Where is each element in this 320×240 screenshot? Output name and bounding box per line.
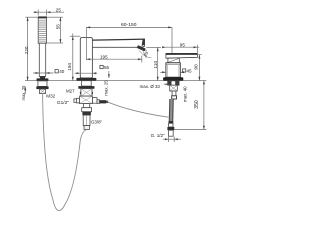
holder top plate [37, 78, 49, 81]
dimension square40 (holder escutcheon) [33, 69, 65, 74]
aerator [137, 45, 146, 51]
svg-text:max. 40: max. 40 [183, 86, 188, 102]
dimension 110 (spout height) [146, 47, 161, 80]
dimension 195 (spout reach) [86, 54, 141, 62]
svg-text:M27: M27 [66, 88, 75, 93]
svg-text:M32: M32 [46, 94, 55, 99]
mixer shank [170, 85, 178, 91]
diverter right washer [97, 100, 100, 104]
holder shank M32 [40, 89, 46, 94]
holder locknut [36, 86, 48, 89]
svg-text:350: 350 [194, 100, 200, 109]
dimension 194 (riser height) [67, 33, 80, 80]
diverter right nipple [100, 100, 109, 103]
holder neck [38, 81, 47, 87]
svg-text:60-150: 60-150 [121, 22, 137, 28]
svg-text:110: 110 [153, 61, 159, 69]
svg-text:max. Ø 33: max. Ø 33 [140, 84, 161, 89]
hose from diverter to supply fitting [108, 102, 168, 117]
spout riser column [80, 38, 92, 78]
label max diameter 33 [140, 83, 169, 88]
diverter right port hex [93, 98, 98, 104]
hand shower shaft [39, 43, 45, 76]
angle arc 25deg [139, 50, 151, 57]
dimension 350 (hose length) [174, 81, 206, 130]
dimension max.25 left (deck thickness) [21, 85, 26, 101]
svg-text:25: 25 [56, 7, 62, 12]
dimension 25 (head width) [33, 7, 64, 15]
riser shank M27 [80, 89, 93, 96]
svg-text:194: 194 [67, 63, 72, 71]
svg-text:195: 195 [100, 54, 108, 59]
svg-text:90: 90 [194, 64, 200, 70]
spout arm [92, 39, 144, 47]
svg-text:45: 45 [187, 69, 193, 74]
mixer lever [166, 53, 198, 62]
svg-text:220: 220 [24, 46, 29, 54]
mixer body [166, 63, 180, 77]
hand shower head [38, 17, 46, 43]
dimension square45 (body width) [160, 69, 192, 74]
hand shower hose loop [43, 94, 86, 211]
svg-text:40: 40 [59, 69, 65, 74]
svg-text:max. 25: max. 25 [104, 80, 109, 96]
mixer supply hose [169, 99, 173, 121]
G3/8 dark collar [82, 112, 91, 115]
mixer fixing stud [172, 91, 177, 99]
svg-text:55: 55 [104, 65, 110, 70]
diverter left port [74, 98, 80, 103]
mixer flange [163, 77, 183, 81]
svg-text:G3/8": G3/8" [91, 120, 103, 125]
aerator axis extension [142, 49, 147, 58]
holder connector nub [40, 76, 45, 78]
svg-text:G1/2": G1/2" [57, 100, 69, 106]
hose end fitting G1/2 [167, 121, 174, 136]
svg-text:55: 55 [55, 24, 60, 30]
riser locknut [78, 86, 94, 89]
diverter body [80, 96, 93, 104]
svg-text:G. 1/2": G. 1/2" [151, 133, 166, 138]
svg-text:max. 25: max. 25 [21, 85, 26, 101]
svg-text:95: 95 [180, 42, 186, 47]
G3/8 threaded tube [83, 115, 90, 129]
mixer locknut [168, 81, 180, 85]
dimension 55 (head length) [47, 17, 63, 43]
riser neck [82, 81, 92, 86]
dimension 90 (lever height) [181, 55, 202, 81]
dimension max.25 right [104, 71, 110, 96]
dimension 60-150 (axis distance) [86, 22, 172, 60]
riser flange [76, 78, 96, 81]
dimension square55 (riser base) [75, 65, 110, 74]
G3/8 hex [82, 108, 92, 112]
diverter lower neck [84, 104, 90, 108]
dimension fitting width [163, 137, 181, 143]
deck line [25, 80, 206, 82]
hand shower grip hatch [39, 20, 46, 41]
dimension 220 (hand shower length) [24, 17, 38, 80]
dimension 95 (lever length) [162, 42, 199, 54]
